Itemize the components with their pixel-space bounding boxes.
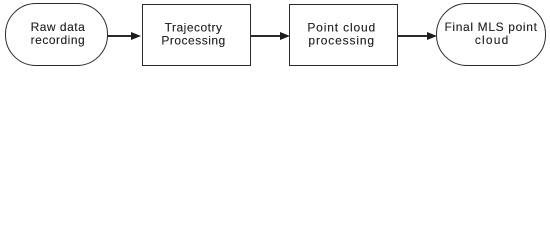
arrowhead 3 — [427, 32, 437, 40]
arrowhead 1 — [131, 32, 141, 40]
terminator: Raw data recording — [5, 3, 108, 66]
wire: arrow 1 line — [107, 35, 132, 37]
wire: arrow 2 line — [251, 35, 281, 37]
process box: Trajecotry Processing — [142, 4, 251, 66]
arrowhead 2 — [280, 32, 290, 40]
terminator: Final MLS point cloud — [436, 3, 547, 66]
process box: Point cloud processing — [289, 4, 399, 66]
wire: arrow 3 line — [398, 35, 428, 37]
